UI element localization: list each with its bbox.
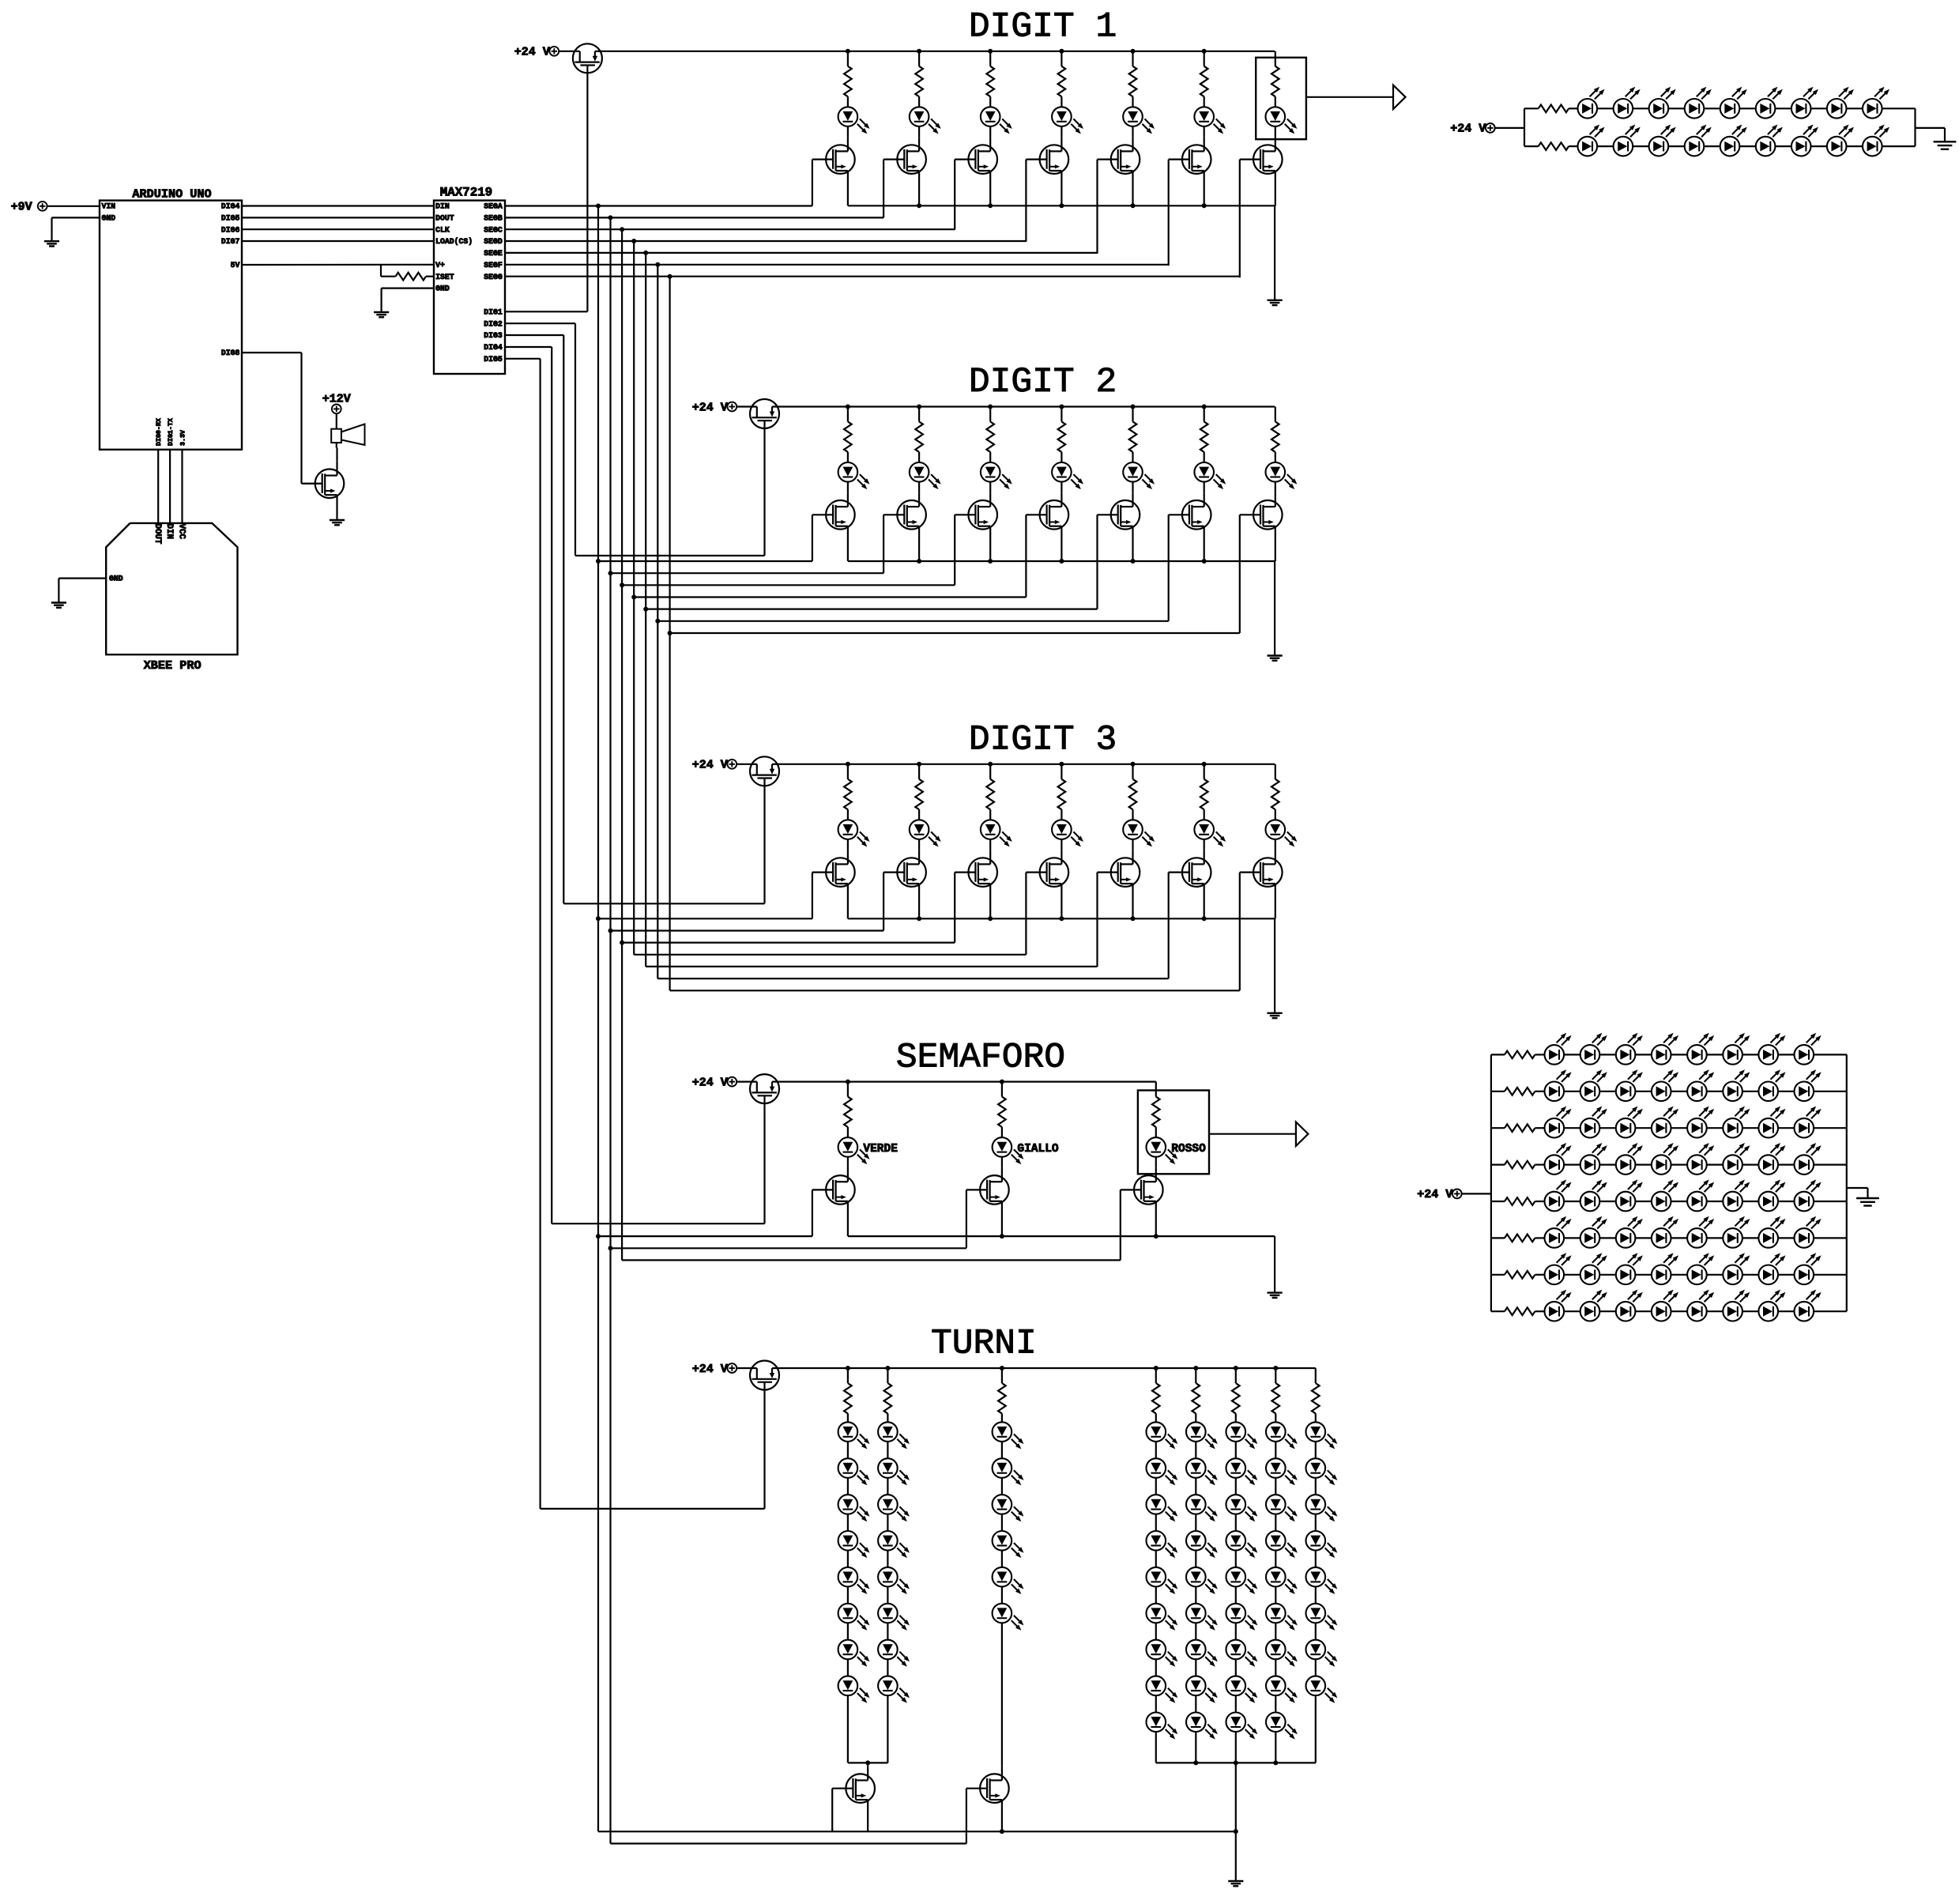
svg-text:DIG2: DIG2 [484,319,503,328]
svg-text:DIG1-TX: DIG1-TX [168,418,175,446]
svg-text:DIG4: DIG4 [221,202,240,211]
svg-text:+24 V: +24 V [692,1076,728,1089]
svg-text:DIG3: DIG3 [484,331,503,340]
svg-text:+24 V: +24 V [1450,123,1486,136]
svg-text:DIG6: DIG6 [221,225,240,234]
svg-text:5V: 5V [231,261,240,270]
svg-text:+9V: +9V [11,201,32,214]
svg-text:VERDE: VERDE [863,1143,898,1156]
svg-text:SEGG: SEGG [484,273,503,281]
svg-text:DIG5: DIG5 [484,355,503,364]
svg-text:DIGIT 3: DIGIT 3 [969,721,1117,760]
svg-text:LOAD(CS): LOAD(CS) [435,237,473,246]
svg-text:SEGC: SEGC [484,225,503,234]
svg-text:SEMAFORO: SEMAFORO [896,1038,1065,1077]
svg-text:DIGIT 1: DIGIT 1 [969,8,1117,47]
svg-text:SEGB: SEGB [484,214,503,223]
svg-text:XBEE PRO: XBEE PRO [144,658,202,673]
svg-text:GIALLO: GIALLO [1017,1143,1059,1156]
svg-text:DOUT: DOUT [153,524,162,545]
svg-text:+24 V: +24 V [692,401,728,414]
svg-text:+24 V: +24 V [692,1363,728,1376]
svg-text:DIN: DIN [164,524,174,539]
svg-text:+24 V: +24 V [514,46,550,59]
svg-text:DIG7: DIG7 [221,237,240,246]
svg-text:DIG1: DIG1 [484,307,503,316]
svg-text:SEGE: SEGE [484,249,503,258]
svg-text:ARDUINO UNO: ARDUINO UNO [132,187,211,202]
svg-text:SEGA: SEGA [484,202,503,211]
svg-text:+24 V: +24 V [1417,1188,1452,1201]
svg-text:3.3V: 3.3V [180,430,187,446]
svg-text:VIN: VIN [102,202,116,211]
svg-text:DIN: DIN [435,202,450,211]
svg-text:V+: V+ [435,261,445,270]
svg-text:SEGF: SEGF [484,261,503,270]
svg-text:VCC: VCC [177,524,186,540]
svg-text:GND: GND [102,214,116,223]
svg-text:ISET: ISET [435,273,454,281]
svg-text:SEGD: SEGD [484,237,503,246]
svg-text:+24 V: +24 V [692,759,728,772]
svg-text:DOUT: DOUT [435,214,454,223]
svg-text:MAX7219: MAX7219 [440,186,492,200]
svg-text:TURNI: TURNI [931,1325,1037,1364]
svg-text:DIG5: DIG5 [221,214,240,223]
svg-text:CLK: CLK [435,225,450,234]
svg-text:DIG4: DIG4 [484,343,503,352]
svg-text:ROSSO: ROSSO [1171,1143,1206,1156]
svg-text:GND: GND [109,575,123,583]
svg-text:GND: GND [435,285,450,293]
svg-text:DIG0-RX: DIG0-RX [156,418,163,446]
svg-text:DIGIT 2: DIGIT 2 [969,363,1117,402]
svg-text:DIG8: DIG8 [221,349,240,357]
